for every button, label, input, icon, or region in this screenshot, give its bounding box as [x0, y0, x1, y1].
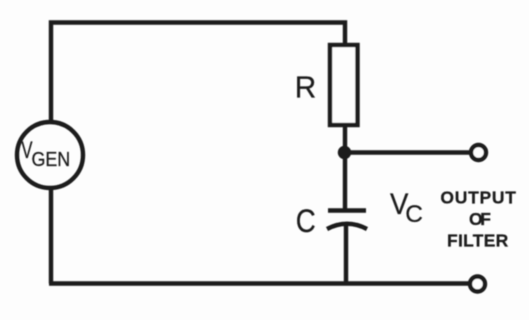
svg-text:OF: OF: [469, 209, 491, 229]
svg-text:C: C: [405, 201, 423, 228]
svg-text:FILTER: FILTER: [447, 230, 509, 250]
svg-text:C: C: [296, 203, 316, 239]
svg-text:OUTPUT: OUTPUT: [440, 188, 516, 208]
svg-text:GEN: GEN: [32, 148, 71, 171]
svg-text:R: R: [295, 71, 317, 105]
